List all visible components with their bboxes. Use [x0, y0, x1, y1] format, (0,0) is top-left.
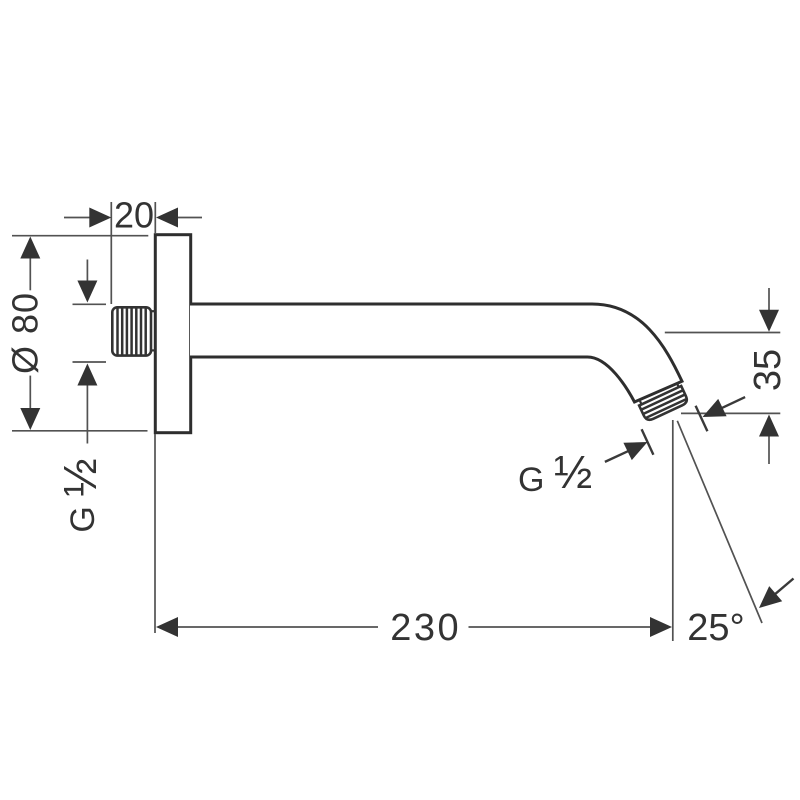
35 dim [665, 332, 781, 334]
knurled nut (wall side) [112, 307, 155, 355]
svg-text:25°: 25° [687, 607, 744, 649]
thin dimension / extension lines [12, 202, 780, 641]
arrowheads [20, 208, 782, 638]
inner G1/2 dim [86, 260, 88, 282]
svg-text:35: 35 [747, 349, 789, 391]
svg-text:Ø 80: Ø 80 [5, 292, 46, 374]
shower arm tube [190, 304, 682, 402]
knurled outlet tip (rotated 65deg) [637, 382, 689, 422]
svg-text:230: 230 [390, 607, 461, 649]
230 dim [154, 434, 156, 633]
svg-text:20: 20 [114, 195, 154, 236]
wall plate [155, 235, 190, 433]
leader tails + ticks (slightly darker) [605, 397, 794, 594]
dia 80 dim [12, 235, 148, 237]
20 dim [110, 202, 112, 304]
25 deg slanted line [677, 421, 762, 623]
